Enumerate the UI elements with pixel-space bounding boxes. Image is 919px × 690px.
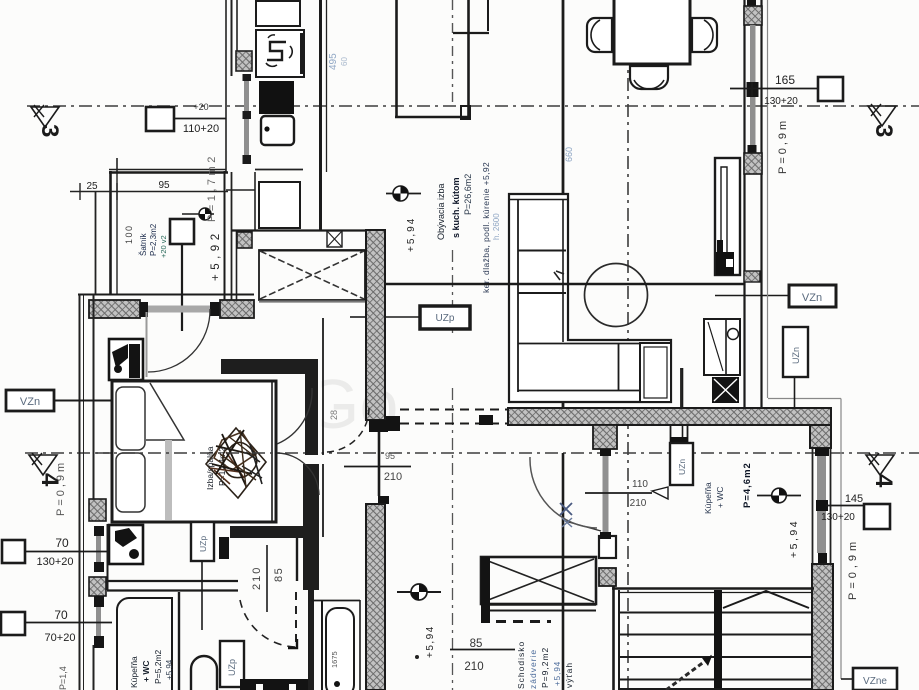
wall living left vertical pair — [395, 0, 398, 118]
svg-text:28: 28 — [329, 410, 339, 420]
level marker +5,94 kitchen — [386, 193, 421, 195]
axis line top horizontal — [27, 105, 919, 107]
svg-text:Obývacia izba: Obývacia izba — [436, 183, 446, 240]
section marker 3 right — [868, 106, 896, 126]
bed lamp fixture top — [129, 344, 140, 378]
UZp box mid + line — [191, 522, 214, 561]
wall kitchen right — [319, 0, 322, 231]
kitchen washbasin unit — [256, 30, 304, 77]
svg-text:P=4,6m2: P=4,6m2 — [742, 462, 753, 508]
svg-text:4: 4 — [36, 473, 63, 487]
svg-text:70+20: 70+20 — [45, 632, 76, 644]
VZnc box bottom right — [853, 668, 897, 690]
svg-text:P=0,9m: P=0,9m — [777, 118, 789, 174]
svg-text:1675: 1675 — [330, 651, 339, 668]
svg-text:UZp: UZp — [198, 536, 208, 552]
svg-text:VZn: VZn — [802, 292, 822, 304]
svg-text:85: 85 — [273, 567, 285, 582]
door leaf vertical — [181, 244, 183, 331]
black pier with X — [712, 377, 739, 403]
svg-text:+5,94: +5,94 — [406, 217, 417, 252]
svg-text:70: 70 — [55, 536, 69, 550]
svg-text:P=1,4: P=1,4 — [58, 666, 68, 690]
vanity with sink — [704, 319, 740, 375]
blue x mark — [560, 503, 572, 515]
toilet double rect — [640, 343, 671, 402]
dark wall L around bed — [221, 359, 318, 374]
svg-text:+ WC: + WC — [715, 487, 725, 509]
svg-text:P=1,7m2: P=1,7m2 — [206, 153, 218, 222]
bed lamp fixture bottom — [115, 528, 137, 547]
svg-text:+5,94: +5,94 — [425, 625, 436, 658]
svg-text:Šatník: Šatník — [139, 232, 148, 256]
bedroom lower wall verticals — [308, 590, 314, 690]
hatch blocks + windows on left wall — [89, 499, 106, 521]
room satnik outline — [109, 171, 112, 294]
svg-text:210: 210 — [384, 471, 402, 483]
wall stub bedroom right upper — [318, 359, 322, 537]
svg-text:UZn: UZn — [677, 459, 687, 475]
svg-text:Schodisko: Schodisko — [516, 641, 526, 689]
UZn vertical box hall — [670, 443, 693, 485]
wall center vertical — [562, 0, 565, 410]
right window column below — [817, 456, 826, 553]
svg-text:25: 25 — [86, 181, 98, 192]
wall kitchen left inner — [231, 0, 233, 76]
elevator shaft with X — [481, 557, 596, 604]
shower tray — [191, 656, 217, 690]
dim line 95 — [70, 191, 228, 193]
svg-text:UZp: UZp — [227, 659, 237, 676]
left exterior wall lines — [95, 191, 97, 294]
svg-text:210: 210 — [630, 498, 647, 509]
svg-text:VZne: VZne — [863, 676, 887, 687]
dashed door arc bathroom — [240, 600, 295, 647]
bedside box bottom — [109, 525, 143, 564]
shaft box in room — [170, 219, 194, 244]
big hatched wall band — [508, 408, 831, 425]
kitchen counter bottom — [255, 169, 303, 171]
wall band above shaft — [232, 229, 365, 231]
svg-text:Kúpeľňa: Kúpeľňa — [129, 656, 139, 688]
svg-text:100: 100 — [124, 224, 134, 244]
valve symbol — [182, 213, 214, 215]
bed outline — [112, 381, 276, 522]
chair left — [587, 18, 612, 52]
window top right — [747, 0, 756, 6]
svg-text:P=5,2m2: P=5,2m2 — [153, 649, 163, 684]
svg-text:výťah: výťah — [564, 662, 574, 688]
kitchen lower cabinet — [259, 182, 300, 228]
VZn box right — [789, 285, 836, 307]
hall door arc — [530, 457, 597, 528]
pillows — [116, 387, 145, 450]
svg-text:85: 85 — [470, 638, 483, 650]
bed bottom wall bar — [230, 526, 310, 538]
svg-text:+20: +20 — [193, 102, 208, 112]
svg-text:s kuch. kútom: s kuch. kútom — [451, 177, 461, 238]
axis line vertical mid (partial) — [452, 0, 454, 103]
svg-text:+5,94: +5,94 — [165, 659, 174, 680]
svg-text:VZn: VZn — [20, 396, 40, 408]
axis line mid horizontal — [25, 452, 919, 454]
kitchen tall unit (fridge) — [256, 1, 300, 26]
dim line top — [109, 169, 226, 171]
bedroom door arcs — [277, 388, 312, 444]
section marker 3 left — [31, 107, 59, 127]
wardrobe right — [715, 158, 740, 275]
blanket fold — [146, 383, 184, 440]
stove (black) — [259, 81, 294, 114]
UZp label box top — [420, 306, 470, 329]
svg-text:+5,94: +5,94 — [553, 661, 562, 686]
long leader line VZn — [386, 283, 744, 286]
svg-text:95: 95 — [158, 180, 170, 191]
sink unit — [261, 116, 294, 145]
stair direction arrow — [666, 656, 712, 690]
svg-text:210: 210 — [464, 661, 483, 673]
svg-text:P=2,3m2: P=2,3m2 — [149, 223, 158, 256]
svg-text:+20 v2: +20 v2 — [159, 235, 168, 258]
svg-text:660: 660 — [564, 147, 574, 162]
svg-text:3: 3 — [870, 124, 897, 137]
wall kitchen left outer — [225, 0, 227, 172]
wall band below room — [78, 294, 254, 296]
small marks near circle — [554, 271, 564, 280]
svg-text:+5,92: +5,92 — [210, 229, 222, 281]
svg-text:P=0,9m: P=0,9m — [847, 538, 859, 600]
svg-text:110: 110 — [632, 479, 648, 490]
UZn vertical box right — [783, 327, 808, 377]
110+20 dim box top-left — [146, 107, 174, 131]
wall pier hatched — [236, 51, 252, 71]
chevron on upper flight — [723, 591, 809, 608]
window left of kitchen — [244, 76, 249, 162]
svg-text:3: 3 — [36, 124, 63, 137]
svg-text:110+20: 110+20 — [183, 123, 219, 135]
stair pier — [599, 568, 616, 586]
band L-leg down right — [810, 425, 831, 448]
door dim 85/210 vertical — [266, 545, 268, 612]
black vanity band — [240, 679, 311, 690]
svg-text:60: 60 — [340, 57, 349, 66]
svg-text:130+20: 130+20 — [821, 512, 855, 523]
svg-text:UZn: UZn — [791, 347, 801, 364]
svg-text:+ WC: + WC — [141, 661, 151, 683]
svg-text:95: 95 — [385, 451, 395, 461]
svg-text:70: 70 — [54, 608, 68, 622]
dining table — [614, 0, 690, 64]
svg-text:210: 210 — [251, 566, 263, 590]
bathroom top wall double — [107, 580, 238, 582]
svg-text:130+20: 130+20 — [764, 96, 798, 107]
door arc closet — [148, 309, 210, 372]
door jamb lines — [680, 368, 682, 409]
svg-text:Kúpeľňa: Kúpeľňa — [703, 482, 713, 514]
section marker 4 right — [866, 455, 894, 475]
axis line vertical right — [627, 0, 629, 690]
svg-text:ker. dlažba, podl. kúrenie +5,: ker. dlažba, podl. kúrenie +5,92 — [481, 162, 491, 293]
cupboard step top — [487, 0, 489, 31]
svg-text:495: 495 — [328, 53, 339, 70]
svg-text:130+20: 130+20 — [36, 556, 73, 568]
T-stub below band — [593, 425, 617, 449]
level marker +5,94 bottom — [397, 591, 441, 593]
gray partition below stub — [603, 456, 609, 533]
svg-text:h. 2600: h. 2600 — [492, 213, 501, 240]
dashed wall opening left of band — [385, 416, 400, 431]
level marker +5,94 right — [757, 495, 801, 497]
dim boxes left edge — [2, 540, 25, 563]
washbasin symbol — [267, 42, 286, 60]
bedside box top — [109, 339, 143, 380]
svg-text:UZp: UZp — [436, 313, 455, 324]
shaft X-box — [259, 250, 365, 300]
bathroom room outline — [117, 598, 172, 690]
duvet scribble ornaments — [206, 428, 266, 498]
svg-text:4: 4 — [870, 474, 897, 488]
section marker 4 left — [29, 455, 57, 475]
opening dashes below elevator — [496, 620, 551, 623]
UZp box bottom — [220, 641, 244, 687]
svg-text:P=9,2m2: P=9,2m2 — [540, 647, 550, 688]
round table — [585, 264, 648, 327]
vertical hatched wall upper — [366, 230, 385, 420]
sofa L-shape — [509, 194, 671, 402]
svg-text:+5,94: +5,94 — [788, 519, 800, 558]
svg-text:zádverie: zádverie — [528, 649, 538, 689]
right exterior wall lines — [743, 0, 745, 410]
VZn box left — [6, 390, 54, 411]
svg-text:145: 145 — [845, 493, 863, 505]
svg-text:P=0,9m: P=0,9m — [55, 460, 67, 516]
dashed door arc hall side — [325, 408, 369, 452]
tub — [321, 600, 323, 690]
svg-text:165: 165 — [775, 73, 795, 87]
staircase — [612, 586, 615, 690]
svg-text:P=26,6m2: P=26,6m2 — [463, 174, 473, 215]
chair bottom — [630, 66, 668, 89]
chair right — [692, 18, 717, 52]
